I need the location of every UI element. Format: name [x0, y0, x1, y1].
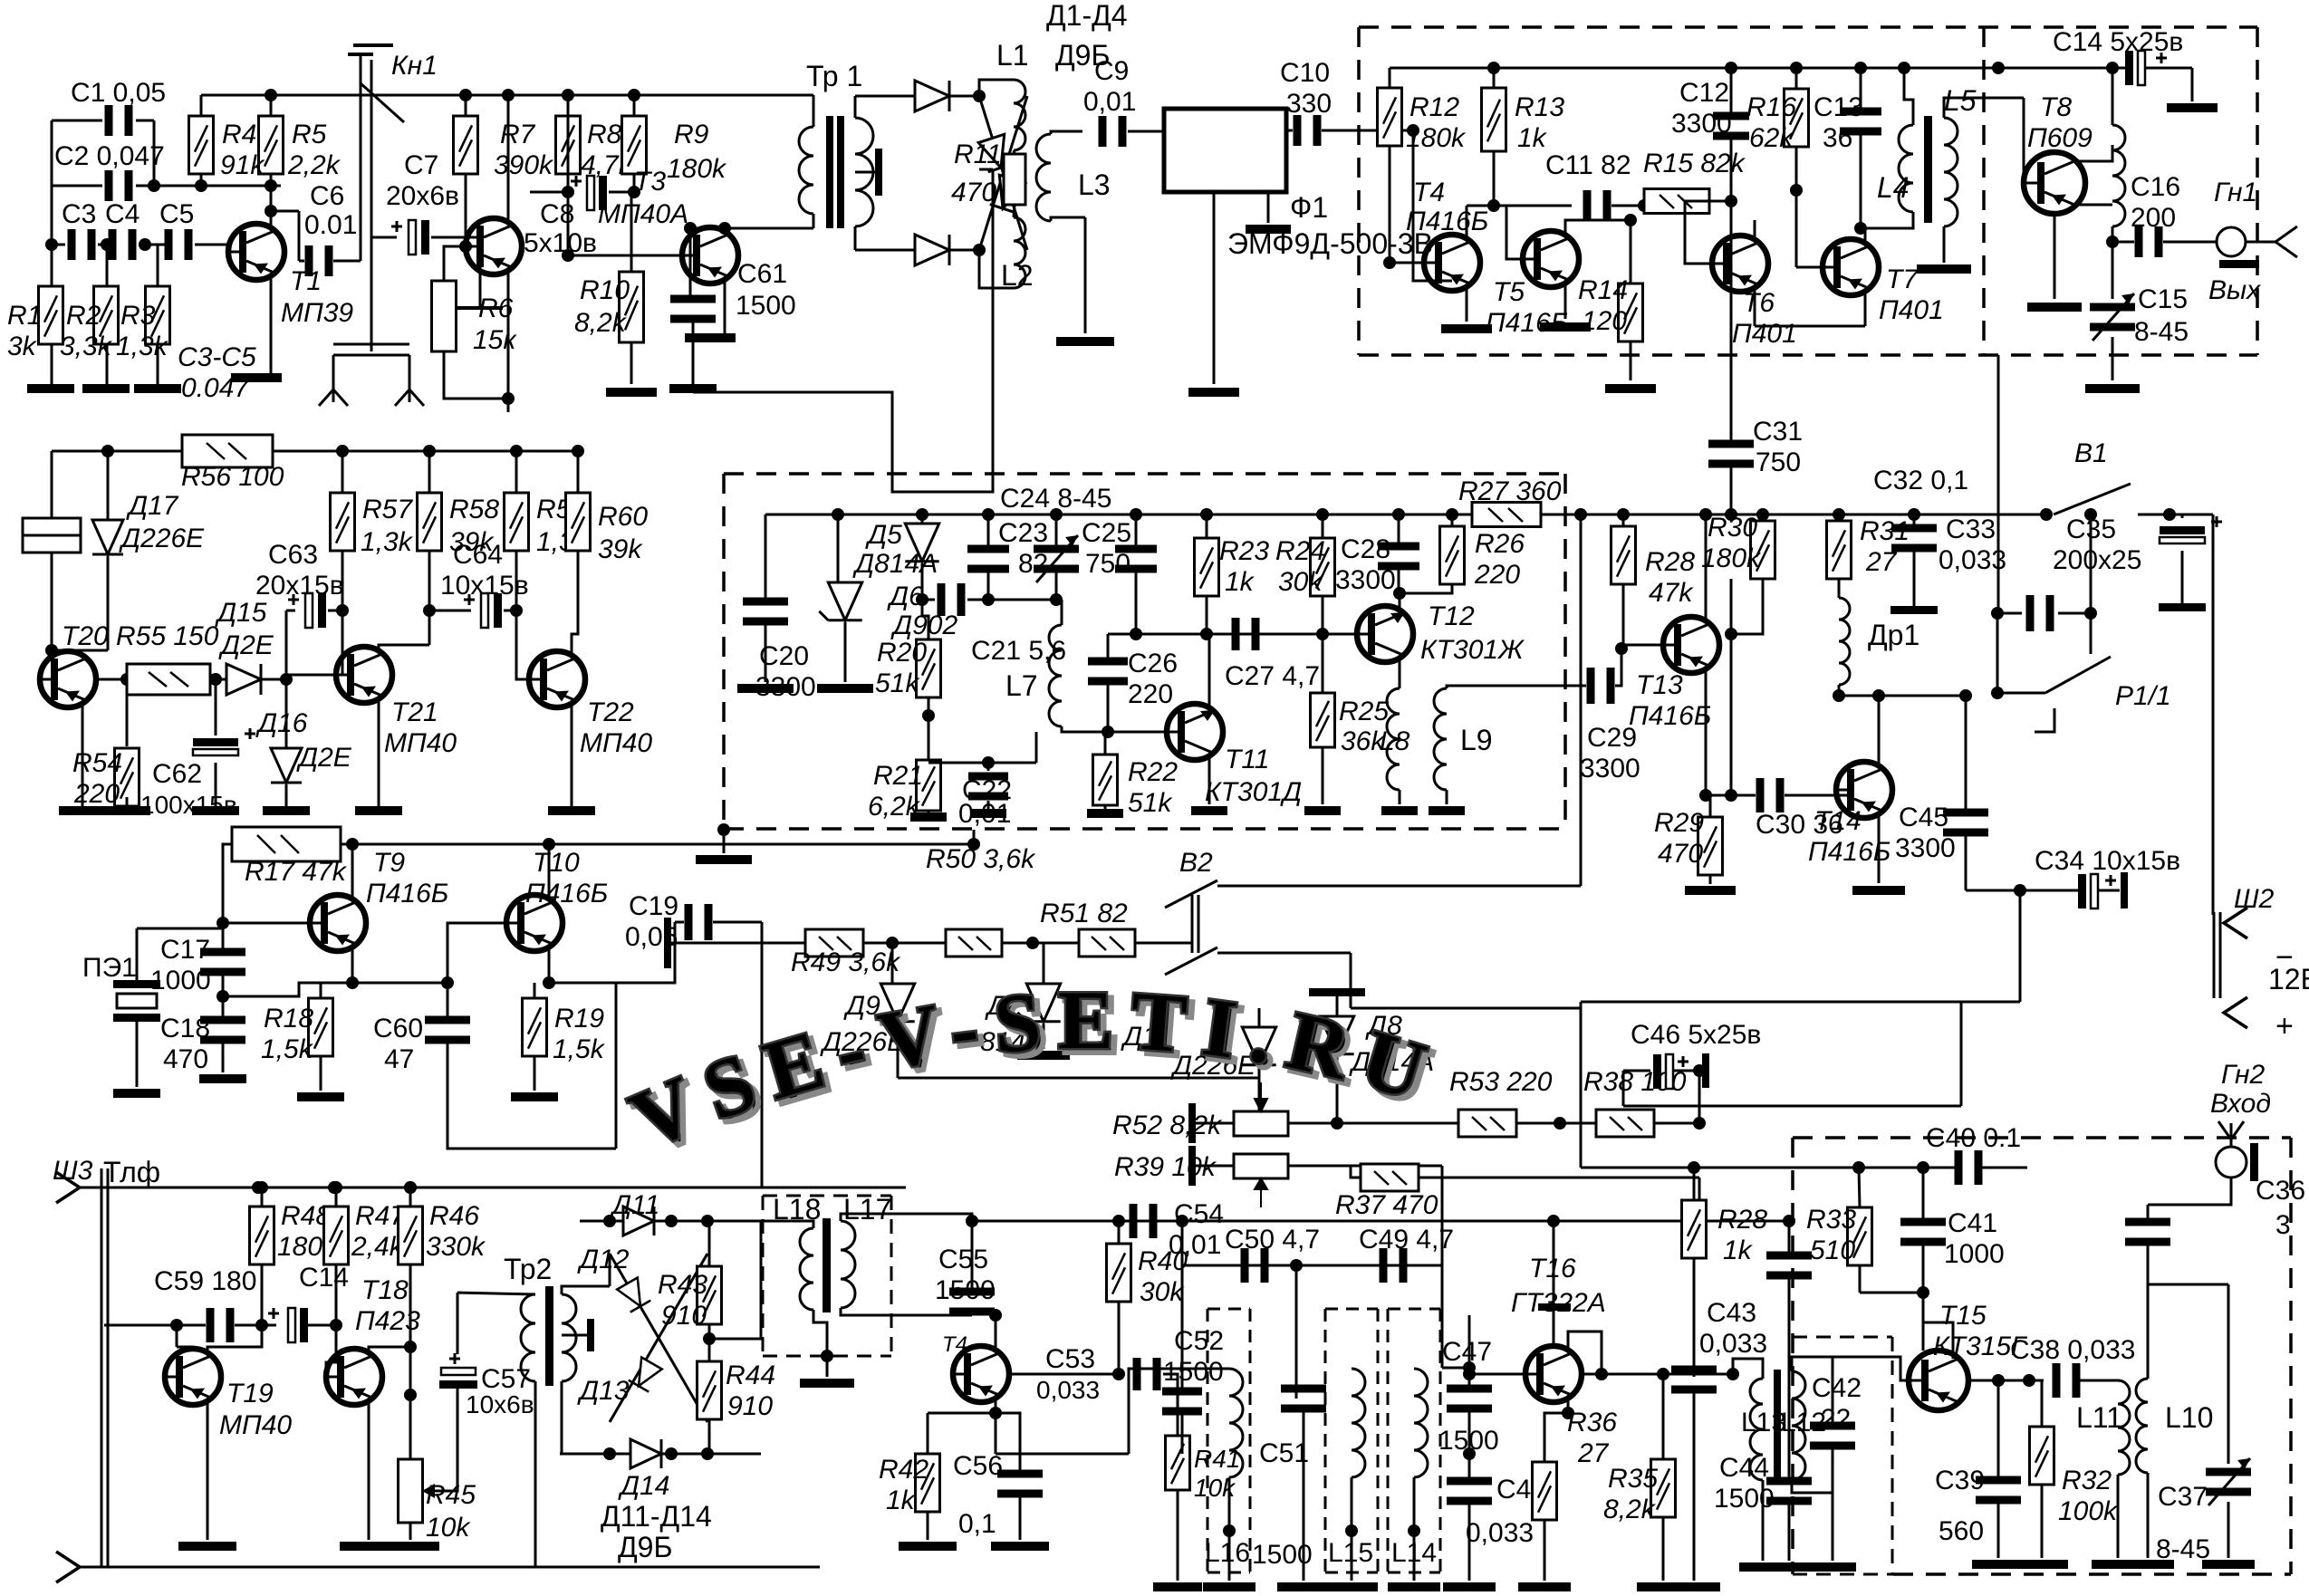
svg-text:C18: C18	[160, 1014, 210, 1043]
svg-text:12В: 12В	[2268, 963, 2309, 995]
svg-text:30k: 30k	[1278, 567, 1323, 597]
svg-text:3: 3	[2275, 1210, 2291, 1240]
svg-text:R28: R28	[1717, 1205, 1767, 1235]
svg-text:R3: R3	[120, 301, 156, 331]
svg-text:B1: B1	[2074, 438, 2108, 468]
svg-text:C14 5х25в: C14 5х25в	[2053, 27, 2183, 57]
svg-text:10k: 10k	[426, 1513, 471, 1543]
svg-text:C56: C56	[953, 1451, 1003, 1481]
svg-text:R1: R1	[7, 301, 42, 331]
svg-text:R23: R23	[1219, 536, 1269, 566]
svg-text:C23: C23	[998, 518, 1048, 548]
svg-text:C4: C4	[105, 199, 140, 229]
svg-text:МП39: МП39	[281, 298, 353, 328]
svg-text:Д1-Д4: Д1-Д4	[1046, 0, 1128, 32]
svg-text:C45: C45	[1899, 803, 1948, 832]
svg-text:Гн1: Гн1	[2214, 178, 2257, 207]
svg-text:Ш2: Ш2	[2234, 884, 2275, 914]
svg-text:C64: C64	[453, 540, 503, 570]
svg-text:Тлф: Тлф	[103, 1156, 160, 1188]
svg-text:47: 47	[384, 1044, 414, 1074]
svg-text:R5: R5	[292, 120, 327, 149]
svg-text:750: 750	[1756, 447, 1801, 477]
svg-text:R56 100: R56 100	[181, 462, 284, 492]
svg-text:C40 0.1: C40 0.1	[1926, 1123, 2021, 1153]
svg-text:330k: 330k	[426, 1232, 486, 1262]
svg-text:R2: R2	[66, 301, 101, 331]
svg-text:С51: С51	[1259, 1438, 1309, 1468]
svg-text:L3: L3	[1078, 168, 1111, 201]
svg-text:L11: L11	[2076, 1401, 2122, 1434]
svg-text:R58: R58	[449, 495, 499, 524]
svg-text:R60: R60	[598, 502, 648, 532]
svg-text:100k: 100k	[2058, 1496, 2119, 1526]
svg-text:30k: 30k	[1140, 1277, 1185, 1307]
svg-text:C13: C13	[1814, 92, 1863, 122]
svg-text:1500: 1500	[1714, 1484, 1775, 1514]
svg-text:T19: T19	[226, 1379, 274, 1409]
svg-text:C25: C25	[1082, 518, 1131, 548]
svg-text:C10: C10	[1280, 58, 1330, 88]
svg-text:R4: R4	[222, 120, 256, 149]
svg-text:C19: C19	[629, 891, 678, 921]
svg-text:Д6: Д6	[887, 582, 924, 611]
svg-text:220: 220	[1474, 560, 1520, 590]
svg-text:С37: С37	[2158, 1482, 2208, 1512]
svg-text:510: 510	[1810, 1235, 1855, 1265]
svg-text:8,2k: 8,2k	[1603, 1495, 1657, 1524]
svg-text:Д12: Д12	[577, 1245, 630, 1274]
svg-text:T13: T13	[1636, 670, 1683, 700]
svg-text:П416Б: П416Б	[1629, 701, 1711, 731]
svg-text:C33: C33	[1946, 514, 1996, 544]
svg-text:C34 10х15в: C34 10х15в	[2035, 846, 2180, 876]
svg-text:330: 330	[1286, 89, 1332, 119]
svg-text:Гн2: Гн2	[2221, 1060, 2266, 1090]
svg-text:C2 0,047: C2 0,047	[54, 141, 165, 171]
svg-text:T18: T18	[361, 1275, 409, 1305]
svg-text:20х6в: 20х6в	[386, 181, 459, 211]
svg-text:R54: R54	[72, 748, 122, 778]
svg-text:L1: L1	[996, 39, 1029, 72]
svg-text:C55: C55	[938, 1245, 988, 1274]
svg-text:C17: C17	[160, 935, 210, 965]
svg-text:T3: T3	[634, 167, 666, 197]
svg-text:+: +	[2275, 1009, 2294, 1043]
svg-text:ПЭ1: ПЭ1	[82, 953, 137, 983]
svg-text:R7: R7	[500, 120, 536, 149]
svg-text:C16: C16	[2131, 172, 2180, 202]
svg-text:T5: T5	[1493, 277, 1525, 307]
svg-text:R27 360: R27 360	[1458, 476, 1562, 506]
svg-text:С39: С39	[1935, 1466, 1985, 1495]
svg-text:6,2k: 6,2k	[868, 792, 921, 822]
svg-text:П609: П609	[2027, 123, 2093, 153]
svg-text:R26: R26	[1475, 529, 1525, 559]
svg-text:МП40: МП40	[580, 728, 652, 758]
svg-text:R10: R10	[580, 275, 630, 305]
svg-text:С44: С44	[1719, 1453, 1769, 1483]
svg-text:91k: 91k	[220, 150, 265, 180]
svg-text:910: 910	[661, 1301, 707, 1331]
svg-text:C35: C35	[2066, 514, 2116, 544]
svg-text:180k: 180k	[1406, 123, 1467, 153]
svg-text:1k: 1k	[886, 1485, 917, 1515]
svg-text:470: 470	[1658, 839, 1703, 869]
svg-text:Д14: Д14	[618, 1471, 670, 1501]
svg-text:МП40: МП40	[384, 728, 457, 758]
svg-text:Д17: Д17	[126, 491, 179, 521]
svg-text:C42: C42	[1812, 1373, 1862, 1403]
svg-text:С53: С53	[1045, 1344, 1095, 1374]
svg-text:R19: R19	[554, 1004, 604, 1034]
svg-text:Д11: Д11	[610, 1190, 659, 1220]
svg-text:T6: T6	[1743, 288, 1775, 318]
svg-text:10х6в: 10х6в	[466, 1390, 534, 1418]
svg-text:П416Б: П416Б	[1406, 207, 1488, 236]
svg-text:C63: C63	[268, 540, 318, 570]
svg-text:Вых: Вых	[2208, 275, 2261, 305]
svg-text:3300: 3300	[1895, 833, 1956, 863]
svg-text:C27 4,7: C27 4,7	[1225, 661, 1320, 691]
svg-text:47k: 47k	[1649, 578, 1694, 608]
svg-text:1k: 1k	[1225, 567, 1256, 597]
svg-text:0,033: 0,033	[1939, 545, 2006, 575]
svg-text:C46 5х25в: C46 5х25в	[1631, 1020, 1761, 1050]
svg-text:L7: L7	[1005, 669, 1038, 702]
svg-text:R14: R14	[1578, 275, 1628, 305]
svg-text:С43: С43	[1707, 1298, 1756, 1328]
svg-text:П416Б: П416Б	[525, 879, 608, 909]
svg-text:R52 8,2k: R52 8,2k	[1112, 1110, 1223, 1140]
svg-text:П416Б: П416Б	[1486, 308, 1568, 338]
svg-text:1,5k: 1,5k	[553, 1034, 606, 1064]
svg-text:1k: 1k	[1723, 1235, 1754, 1265]
svg-text:2,4k: 2,4k	[351, 1232, 405, 1262]
svg-text:T22: T22	[587, 697, 634, 727]
svg-text:C15: C15	[2138, 284, 2188, 314]
svg-text:200: 200	[2131, 203, 2176, 233]
svg-text:R30: R30	[1708, 513, 1757, 543]
svg-text:200х25: 200х25	[2053, 545, 2141, 575]
svg-text:0.01: 0.01	[304, 210, 357, 240]
svg-text:С14: С14	[299, 1263, 349, 1293]
svg-text:C11 82: C11 82	[1545, 150, 1631, 180]
svg-text:0,033: 0,033	[1699, 1329, 1767, 1359]
svg-text:470: 470	[951, 178, 996, 207]
svg-text:8-45: 8-45	[2134, 317, 2189, 347]
svg-text:T14: T14	[1814, 806, 1862, 836]
svg-text:R25: R25	[1339, 697, 1389, 726]
svg-text:Д2Е: Д2Е	[296, 743, 352, 773]
svg-text:R13: R13	[1515, 92, 1564, 122]
svg-text:Д2Е: Д2Е	[218, 630, 274, 660]
svg-text:C38 0,033: C38 0,033	[2010, 1335, 2135, 1365]
svg-text:2,2k: 2,2k	[287, 150, 342, 180]
svg-text:L5: L5	[1944, 84, 1977, 117]
svg-text:Тр2: Тр2	[504, 1253, 552, 1285]
svg-text:П416Б: П416Б	[1808, 837, 1890, 867]
svg-text:R42: R42	[879, 1455, 928, 1485]
svg-text:1,3k: 1,3k	[116, 332, 169, 361]
svg-text:C41: C41	[1948, 1208, 1997, 1238]
svg-text:T12: T12	[1428, 601, 1475, 631]
svg-text:L10: L10	[2165, 1401, 2213, 1434]
svg-text:Д226Е: Д226Е	[119, 524, 205, 553]
svg-text:R16: R16	[1746, 92, 1796, 122]
svg-text:R53 220: R53 220	[1449, 1067, 1553, 1097]
svg-text:0,033: 0,033	[1466, 1518, 1534, 1548]
svg-text:С49 4,7: С49 4,7	[1359, 1225, 1454, 1255]
svg-text:1k: 1k	[1517, 123, 1548, 153]
svg-text:R36: R36	[1567, 1408, 1617, 1437]
svg-text:1500: 1500	[1163, 1357, 1224, 1387]
svg-text:3300: 3300	[1580, 754, 1640, 784]
svg-text:15к: 15к	[473, 325, 517, 355]
svg-text:51k: 51k	[875, 668, 920, 698]
svg-text:С36: С36	[2256, 1176, 2305, 1206]
svg-text:R33: R33	[1806, 1205, 1856, 1235]
svg-text:R40: R40	[1138, 1246, 1188, 1276]
svg-text:C26: C26	[1128, 649, 1178, 678]
svg-text:T11: T11	[1225, 745, 1269, 774]
svg-text:62k: 62k	[1749, 123, 1794, 153]
svg-text:5х10в: 5х10в	[524, 228, 597, 258]
svg-text:C61: C61	[737, 259, 787, 289]
svg-text:0,1: 0,1	[958, 1509, 996, 1539]
svg-text:R51 82: R51 82	[1040, 899, 1128, 928]
svg-text:C28: C28	[1341, 534, 1390, 564]
svg-text:0,033: 0,033	[1036, 1376, 1100, 1404]
svg-text:Др1: Др1	[1868, 619, 1919, 651]
svg-text:L8: L8	[1380, 726, 1410, 756]
svg-text:П423: П423	[355, 1306, 420, 1336]
svg-text:C3-C5: C3-C5	[178, 342, 256, 372]
svg-text:R8: R8	[587, 120, 622, 149]
svg-text:C24 8-45: C24 8-45	[1000, 484, 1111, 514]
svg-text:Вход: Вход	[2210, 1089, 2271, 1119]
svg-text:R37 470: R37 470	[1335, 1190, 1438, 1220]
svg-text:C3: C3	[62, 199, 96, 229]
svg-text:C62: C62	[152, 759, 202, 789]
svg-text:T8: T8	[2040, 92, 2072, 122]
svg-text:220: 220	[73, 779, 120, 809]
svg-text:R6: R6	[478, 293, 514, 323]
svg-text:8,2k: 8,2k	[574, 308, 628, 338]
svg-text:R12: R12	[1409, 92, 1459, 122]
svg-text:Д15: Д15	[215, 598, 267, 628]
svg-text:560: 560	[1939, 1516, 1984, 1546]
svg-text:3300: 3300	[1671, 109, 1732, 139]
svg-text:T9: T9	[373, 848, 405, 878]
svg-text:C6: C6	[310, 181, 344, 211]
svg-text:R17 47k: R17 47k	[245, 857, 348, 887]
svg-text:3300: 3300	[1335, 565, 1396, 595]
svg-text:C12: C12	[1679, 78, 1729, 108]
svg-text:Т4: Т4	[942, 1332, 967, 1357]
svg-text:T21: T21	[391, 697, 438, 727]
svg-text:3k: 3k	[7, 332, 38, 361]
svg-text:МП40: МП40	[219, 1410, 292, 1440]
svg-text:КТ301Д: КТ301Д	[1205, 777, 1302, 807]
svg-text:C20: C20	[759, 641, 809, 671]
svg-text:27: 27	[1577, 1438, 1610, 1468]
svg-text:L17: L17	[843, 1193, 891, 1226]
svg-text:L2: L2	[1001, 259, 1034, 292]
svg-text:51k: 51k	[1128, 788, 1173, 818]
svg-text:R11: R11	[954, 139, 1002, 169]
svg-text:П416Б: П416Б	[366, 879, 448, 909]
svg-text:0,01: 0,01	[958, 799, 1011, 829]
svg-text:R46: R46	[429, 1201, 479, 1231]
svg-text:R22: R22	[1128, 757, 1178, 787]
svg-text:22: 22	[1821, 1404, 1851, 1434]
svg-text:R29: R29	[1654, 808, 1704, 838]
svg-text:C5: C5	[159, 199, 194, 229]
svg-text:1500: 1500	[736, 291, 796, 321]
svg-text:8-45: 8-45	[2156, 1534, 2210, 1564]
svg-text:750: 750	[1085, 549, 1130, 579]
svg-text:390k: 390k	[494, 150, 554, 180]
svg-text:Д13: Д13	[577, 1376, 630, 1406]
svg-text:T20: T20	[62, 621, 109, 651]
svg-text:Д11-Д14: Д11-Д14	[601, 1500, 712, 1533]
svg-text:C32 0,1: C32 0,1	[1873, 466, 1968, 495]
svg-text:1,3k: 1,3k	[361, 527, 414, 557]
svg-text:L16: L16	[1205, 1538, 1250, 1568]
svg-text:120: 120	[1582, 306, 1627, 336]
svg-text:Тр 1: Тр 1	[806, 60, 862, 92]
svg-text:R49 3,6k: R49 3,6k	[791, 947, 901, 977]
svg-text:470: 470	[163, 1044, 208, 1074]
svg-text:C8: C8	[540, 199, 574, 229]
svg-text:R28: R28	[1645, 547, 1695, 577]
svg-text:R57: R57	[362, 495, 413, 524]
svg-text:910: 910	[727, 1391, 773, 1421]
svg-text:180k: 180k	[1701, 543, 1762, 573]
svg-text:3300: 3300	[755, 672, 816, 702]
svg-text:L4: L4	[1877, 171, 1910, 204]
svg-text:Д5: Д5	[865, 520, 902, 550]
svg-text:R20: R20	[877, 638, 927, 668]
svg-text:T10: T10	[533, 848, 580, 878]
svg-text:Ф1: Ф1	[1290, 191, 1328, 224]
svg-text:Кн1: Кн1	[391, 51, 438, 81]
svg-text:КТ301Ж: КТ301Ж	[1420, 635, 1525, 665]
svg-text:R50 3,6k: R50 3,6k	[926, 844, 1036, 874]
svg-text:Д16: Д16	[255, 708, 308, 738]
svg-text:R35: R35	[1608, 1464, 1658, 1494]
svg-text:T7: T7	[1886, 264, 1919, 294]
svg-text:ГТ322А: ГТ322А	[1511, 1288, 1606, 1318]
svg-text:B2: B2	[1179, 848, 1213, 878]
svg-text:39k: 39k	[598, 534, 643, 564]
svg-text:220: 220	[1128, 679, 1173, 709]
svg-text:1,5k: 1,5k	[261, 1034, 314, 1064]
svg-text:R21: R21	[873, 761, 923, 791]
svg-text:П401: П401	[1879, 295, 1944, 325]
svg-text:T15: T15	[1939, 1301, 1987, 1331]
svg-text:C31: C31	[1753, 417, 1803, 447]
svg-text:R18: R18	[264, 1004, 313, 1034]
svg-text:L9: L9	[1460, 724, 1493, 756]
svg-text:П401: П401	[1732, 319, 1797, 349]
svg-text:R55 150: R55 150	[116, 621, 219, 651]
svg-text:C59 180: C59 180	[154, 1266, 256, 1296]
svg-text:МП40А: МП40А	[598, 199, 688, 229]
svg-text:T4: T4	[1413, 178, 1445, 207]
svg-text:R24: R24	[1275, 536, 1325, 566]
svg-text:C9: C9	[1094, 56, 1129, 86]
svg-text:С50 4,7: С50 4,7	[1225, 1225, 1320, 1255]
svg-text:R32: R32	[2062, 1466, 2112, 1495]
svg-text:R43: R43	[658, 1270, 707, 1300]
svg-text:0,01: 0,01	[1083, 87, 1136, 117]
svg-text:R44: R44	[726, 1360, 775, 1390]
svg-text:R9: R9	[674, 120, 709, 149]
svg-text:C60: C60	[373, 1014, 423, 1043]
svg-text:20х15в: 20х15в	[255, 571, 344, 601]
svg-text:Д9Б: Д9Б	[618, 1531, 672, 1563]
svg-text:1500: 1500	[935, 1275, 996, 1305]
svg-text:1000: 1000	[1944, 1239, 2005, 1269]
svg-text:0.047: 0.047	[181, 373, 250, 403]
svg-text:180k: 180k	[667, 154, 727, 184]
svg-text:R39 10k: R39 10k	[1114, 1152, 1217, 1182]
svg-text:C1 0,05: C1 0,05	[71, 78, 166, 108]
svg-text:Р1/1: Р1/1	[2115, 681, 2171, 711]
svg-text:3,3k: 3,3k	[60, 332, 113, 361]
svg-text:C7: C7	[404, 150, 438, 180]
svg-text:C21 5,6: C21 5,6	[971, 636, 1066, 666]
svg-text:36: 36	[1823, 123, 1852, 153]
svg-text:1000: 1000	[150, 966, 211, 995]
